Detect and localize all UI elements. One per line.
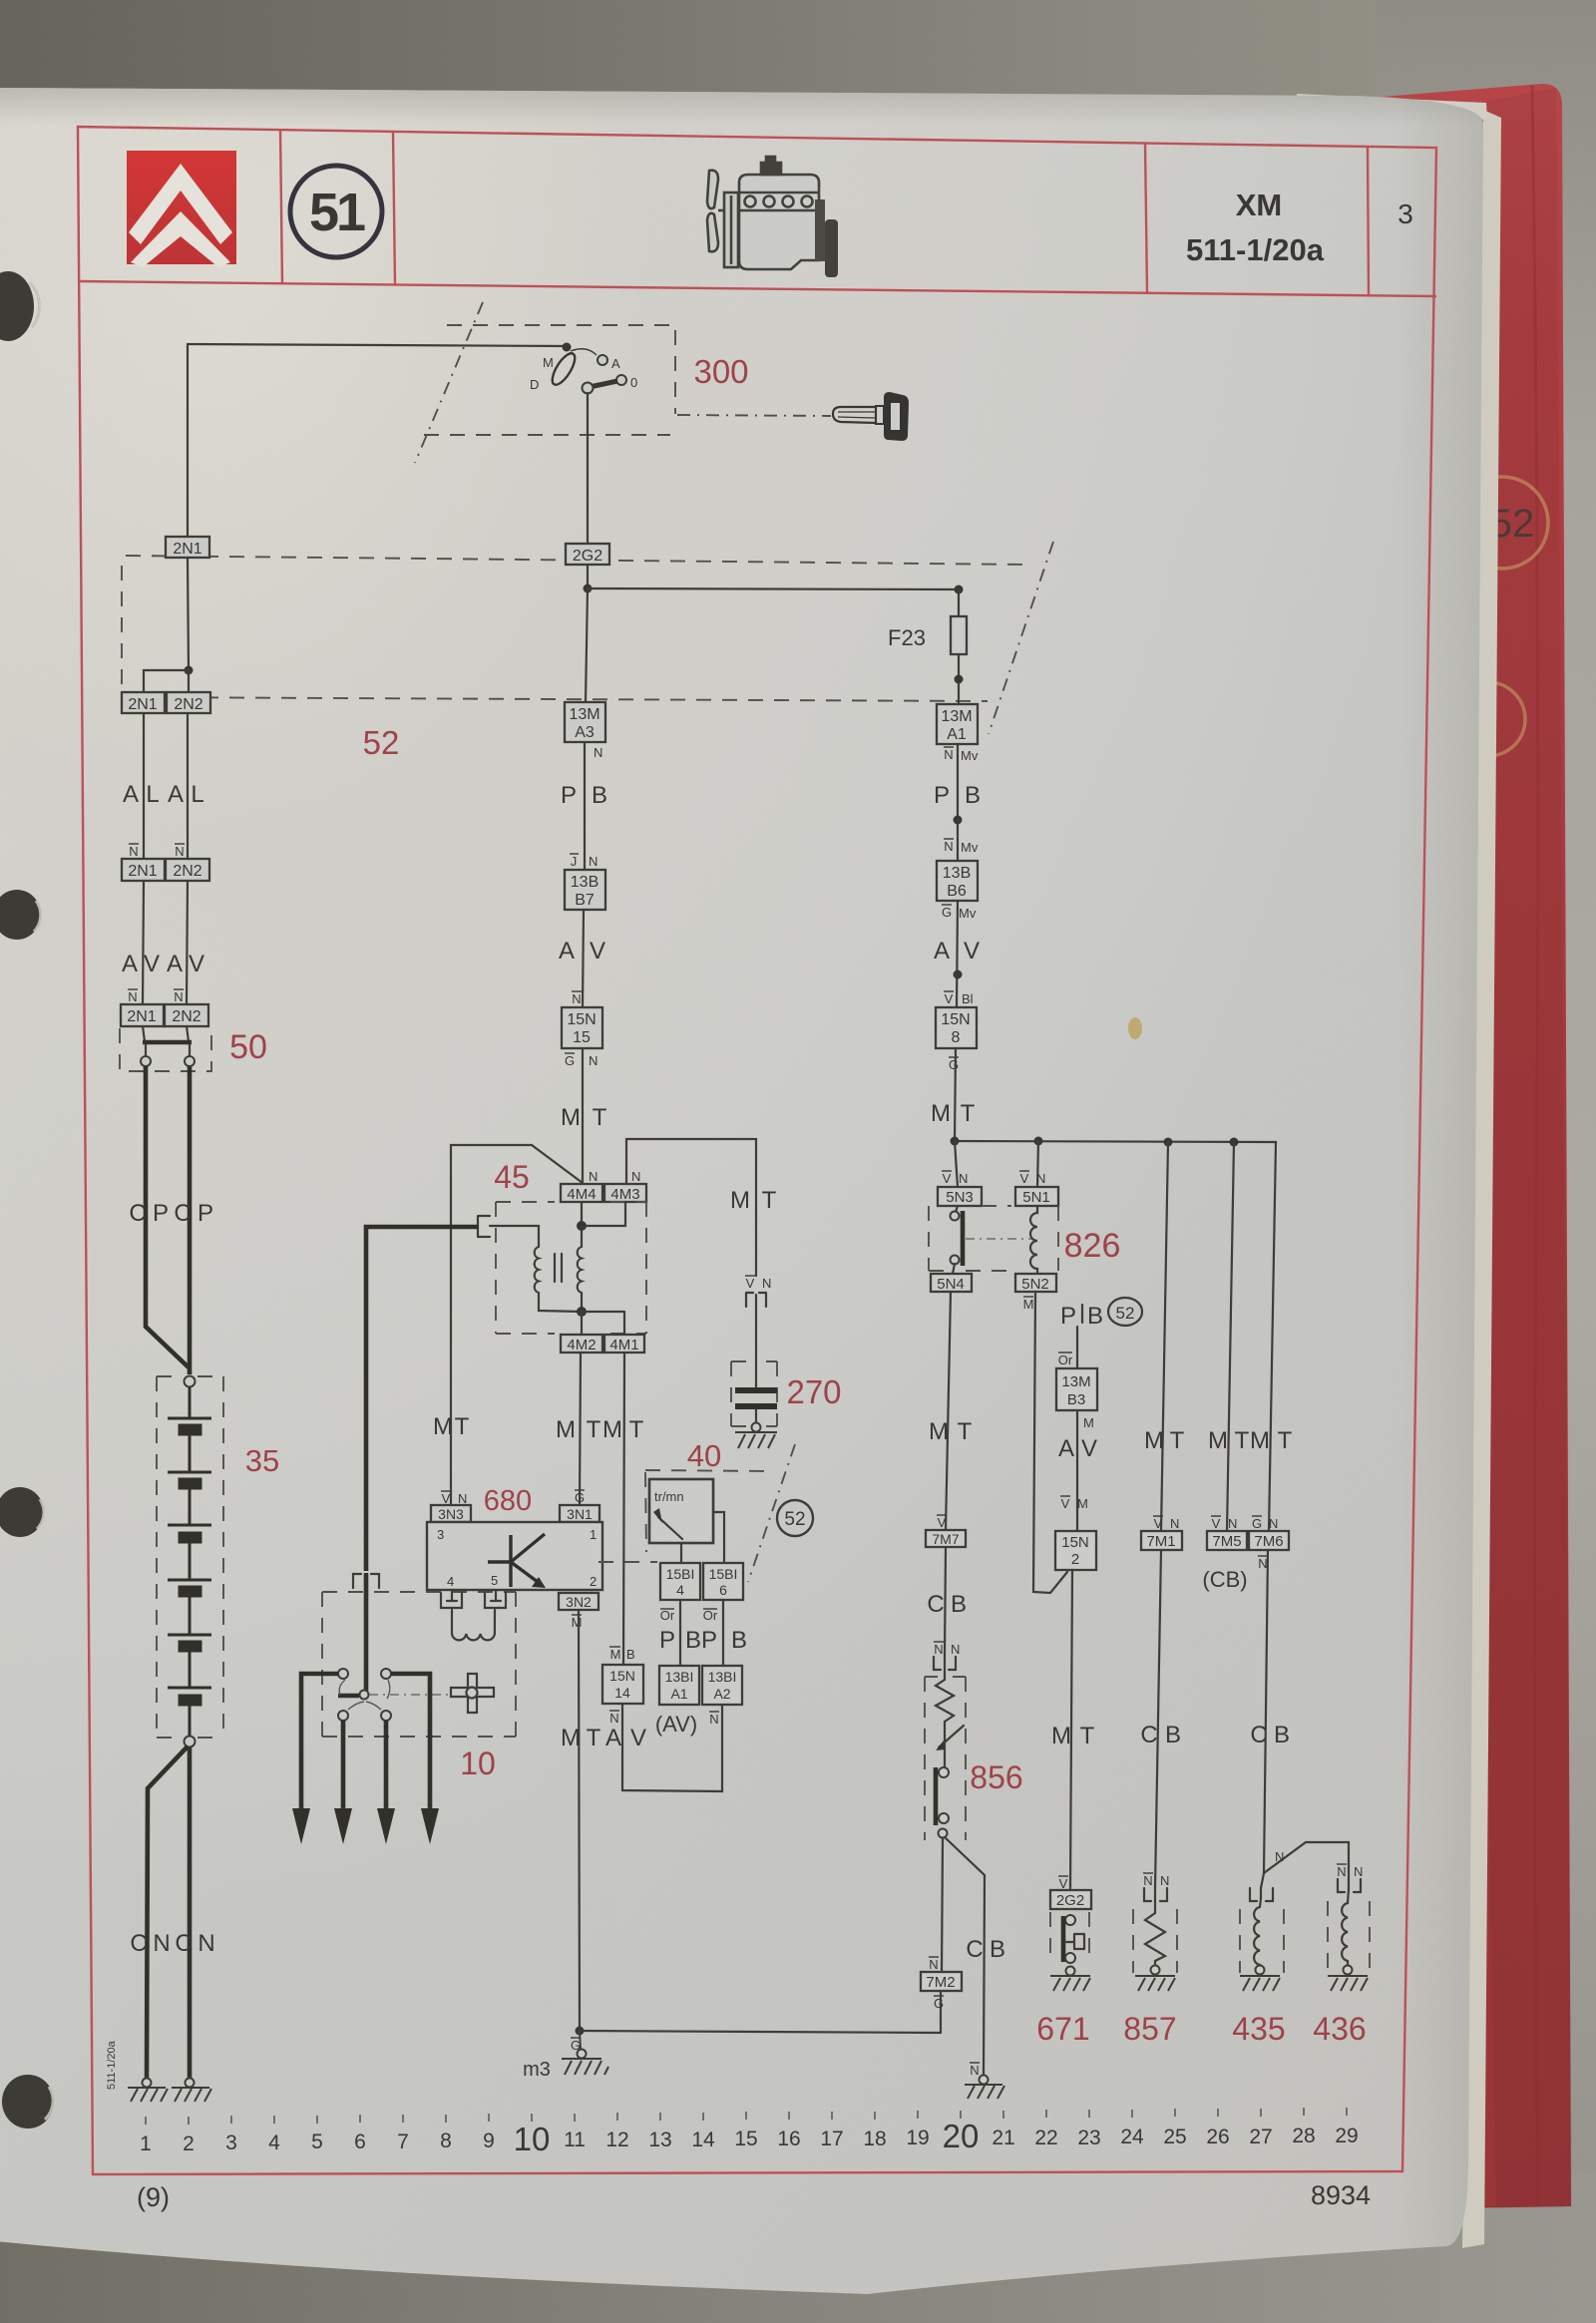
tachometer tr/mn — [649, 1479, 713, 1543]
oil pressure switch 671 — [1065, 1915, 1075, 1925]
ground battery left — [128, 2079, 168, 2103]
wire to ground — [1154, 1961, 1156, 1966]
relay coil winding — [1030, 1206, 1037, 1274]
wire node to 4M1 — [582, 1312, 624, 1335]
thermal contact 856 — [939, 1767, 949, 1777]
spark plug lead 2 — [341, 1721, 346, 1810]
connector 15BI 4 — [660, 1563, 700, 1600]
connector 2N1 row4 — [121, 1004, 164, 1026]
contact O — [616, 375, 626, 385]
wire tach to 15BI6 — [713, 1512, 724, 1563]
connector 3N3 — [431, 1505, 471, 1522]
connector 13B B6 — [937, 861, 978, 901]
resistor 856 dashed box — [925, 1677, 966, 1840]
wire pair A V right — [187, 881, 188, 1004]
ground condenser — [735, 1423, 777, 1449]
wire into resistor — [1154, 1898, 1156, 1913]
wire 15N15 down to coil — [582, 1048, 584, 1184]
connector 15N 14 — [602, 1665, 643, 1704]
node F23 top — [955, 585, 964, 594]
dashed box 857 — [1133, 1909, 1177, 1973]
battery ground leads — [147, 1746, 188, 2078]
wire plate to ground — [755, 1409, 757, 1423]
node feed split — [584, 584, 593, 593]
connector 7M2 — [921, 1972, 962, 1991]
connector 3N1 — [560, 1505, 599, 1522]
connector 13M A1 — [937, 704, 978, 744]
connector 2N1 row1 — [166, 537, 209, 558]
connector bracket 435 — [1250, 1888, 1273, 1901]
connector bracket 857 — [1144, 1888, 1167, 1901]
connector 15N B — [936, 1007, 977, 1048]
node M contact — [563, 343, 572, 352]
wire 15N B to bus — [955, 1048, 956, 1141]
junction 50 terminals — [146, 1044, 190, 1056]
connector 4M3 — [604, 1184, 646, 1202]
module 680 body — [427, 1522, 602, 1590]
bus nodes — [951, 1137, 960, 1146]
junction 50 stubs — [143, 1026, 189, 1041]
distributor cap connector — [353, 1574, 379, 1588]
wires 15BI to 13BI — [680, 1600, 723, 1666]
relay 826 dashed box — [929, 1206, 1058, 1271]
engine icon — [707, 157, 838, 277]
condenser plates — [735, 1387, 777, 1393]
wire 4M3 to node — [582, 1202, 625, 1226]
connector 15N 15 — [562, 1007, 602, 1048]
wire 5N4 down to 7M7 — [946, 1292, 951, 1530]
relay switch contacts — [956, 1206, 958, 1212]
connector 13BI A1 — [659, 1666, 699, 1705]
wire fuse down — [958, 654, 960, 704]
node below fuse — [955, 675, 964, 684]
zone 10 dashed box — [322, 1592, 516, 1737]
connector 3N2 — [559, 1593, 598, 1610]
wire to condenser — [755, 1295, 757, 1388]
connector 5N4 — [931, 1274, 972, 1292]
spark plug lead 4 — [391, 1674, 430, 1810]
node coil top — [577, 1221, 587, 1231]
battery main leads — [146, 1066, 189, 1367]
connector bracket 856 — [934, 1656, 956, 1670]
circled 52 reference — [1108, 1298, 1142, 1326]
connector 15N 2 — [1055, 1531, 1096, 1570]
inductor element 435 — [1254, 1898, 1261, 1966]
header cell divider XM/3 — [1368, 147, 1369, 295]
ignition switch 300 — [188, 343, 637, 545]
connector 13BI A2 — [702, 1666, 742, 1705]
wire 15N2 down to 671 — [1070, 1570, 1072, 1890]
connector 4M4 — [561, 1184, 602, 1202]
wire primary bottom — [539, 1293, 582, 1312]
wire 7M6 down to 435 — [1261, 1550, 1268, 1888]
connector 2N1 row3 — [122, 859, 165, 881]
zone 52 left dashed edge — [121, 566, 123, 695]
connector 13M B3 — [1056, 1368, 1097, 1410]
filler cap — [761, 163, 781, 175]
fan blades — [707, 171, 718, 208]
dashed box 435 — [1240, 1909, 1284, 1973]
pin 5 socket — [485, 1590, 506, 1608]
wire 7M2 to earth line — [940, 1991, 942, 2033]
oil pan — [739, 251, 819, 269]
resistor element 856 — [936, 1680, 954, 1722]
ground m3 — [562, 2031, 608, 2075]
wire down from 2N1 — [188, 558, 189, 670]
rotor link dash-dot — [369, 1694, 449, 1696]
wire pair A L right — [187, 713, 189, 859]
junction 50 dashed outline — [120, 1028, 211, 1071]
moving contact barrel — [549, 350, 580, 388]
node main earth junction — [576, 2027, 585, 2036]
spark plug lead 3 — [384, 1721, 389, 1810]
node mid2 — [954, 970, 963, 979]
wire bus to 5N3 — [955, 1141, 958, 1187]
fuse F23 — [951, 616, 967, 654]
distributor contacts — [338, 1669, 348, 1679]
wire 7M1 down to 857 — [1155, 1550, 1161, 1888]
connector 15BI 6 — [703, 1563, 743, 1600]
wire 13M B3 to 15N2 — [1076, 1410, 1078, 1531]
condenser 270 dashed box — [731, 1361, 777, 1426]
connector 13B B7 — [565, 870, 605, 910]
wire tap to module 680 — [451, 1145, 583, 1505]
connector 2N1 row2 — [122, 692, 165, 713]
condenser connector — [746, 1293, 766, 1307]
wire tach to 15BI4 — [680, 1543, 682, 1563]
rotor cross cam — [451, 1674, 494, 1713]
wire pair A L — [143, 713, 145, 859]
zone 300 diagonal dash-dot edge — [415, 302, 483, 463]
resistor element 857 — [1145, 1913, 1165, 1961]
wire socket to primary winding — [490, 1226, 539, 1247]
wire 13M A3 to 13B B7 — [584, 742, 586, 870]
pivot — [583, 383, 594, 394]
header bottom rule — [80, 281, 1436, 296]
red page frame — [78, 127, 1436, 2174]
connector 7M1 — [1141, 1531, 1182, 1550]
ground 857 — [1135, 1966, 1175, 1992]
ground 435 — [1240, 1966, 1280, 1992]
contact A — [598, 355, 607, 365]
belt pulley — [724, 193, 738, 267]
wire into fuse — [958, 589, 960, 616]
relay link dash-dot — [966, 1238, 1031, 1240]
connector 7M5 — [1207, 1531, 1247, 1550]
node split — [185, 666, 194, 675]
coil 45 primary socket — [478, 1216, 490, 1237]
ground battery right — [172, 2079, 211, 2103]
coil 45 core — [555, 1254, 562, 1282]
wire top left vertical — [187, 344, 189, 537]
connector 2G2 — [566, 544, 609, 565]
header cell divider logo/51 — [280, 130, 282, 283]
zone 52 lower dashed boundary — [126, 697, 988, 701]
pickup winding loop — [452, 1610, 495, 1640]
wire battery feed to switch — [188, 344, 567, 346]
rotor arm — [338, 1694, 359, 1699]
Citroen logo — [127, 151, 236, 267]
wire to 2N2 — [188, 670, 190, 692]
connector bracket 436 — [1338, 1879, 1361, 1892]
zone 52 diagonal boundary at F23 — [989, 542, 1053, 734]
wire into resistor — [944, 1667, 946, 1680]
MT distribution bus — [953, 1141, 1276, 1531]
junction terminal — [939, 1829, 948, 1838]
page fore-edge stack — [1462, 110, 1501, 2248]
wire 13B B7 to 15N 15 — [583, 910, 584, 1007]
switch lever — [590, 381, 617, 387]
connector 13M A3 — [565, 702, 605, 742]
circled 52 reference — [777, 1500, 813, 1536]
yellow stain — [1128, 1017, 1142, 1039]
wire bus to 5N1 — [1037, 1141, 1038, 1187]
battery bottom terminal — [185, 1737, 196, 1747]
coil 45 primary winding — [535, 1247, 539, 1293]
variable arrow — [939, 1726, 964, 1747]
wire bus to 7M5 — [1227, 1142, 1234, 1531]
ground 436 — [1328, 1966, 1368, 1992]
battery 35 cells — [168, 1387, 211, 1736]
wire 13B B6 to 15N B — [957, 901, 958, 1007]
zone 40 diagonal boundary — [748, 1444, 795, 1582]
K symbol — [488, 1534, 545, 1587]
wire branch left — [144, 670, 189, 692]
node coil bottom — [577, 1307, 587, 1317]
wire P B to 13M B3 — [1076, 1327, 1078, 1368]
binder ring holes — [0, 271, 54, 2129]
circled 51 section number — [290, 166, 382, 257]
zone 52 upper dashed boundary — [126, 556, 1027, 565]
dash-dot link to key — [677, 415, 831, 416]
wire pair A V — [143, 881, 144, 1004]
header cell divider 51/engine — [393, 132, 395, 284]
connector 2N2 row2 — [167, 692, 210, 713]
connector 4M2 — [561, 1335, 602, 1353]
pin 4 socket — [441, 1590, 462, 1608]
connector 2N2 row3 — [166, 859, 209, 881]
wire branch to body ground — [945, 1837, 985, 2075]
inductor element 436 — [1342, 1889, 1349, 1966]
key icon — [833, 392, 909, 441]
wire down to 13M A3 — [586, 588, 588, 702]
battery 35 top terminal — [185, 1376, 196, 1387]
wire pivot down to 2G2 — [587, 393, 589, 544]
connector 4M1 — [604, 1335, 644, 1353]
connector 2G2 oil switch — [1050, 1890, 1091, 1909]
HT thick wire — [366, 1227, 479, 1571]
wire bus to 7M1 — [1161, 1142, 1168, 1531]
binder 52 badge — [1451, 477, 1548, 756]
wire 2G2 down — [587, 565, 589, 587]
wire 4M1 down to 15N14 — [623, 1353, 624, 1665]
junction 50 bus bar — [143, 1040, 192, 1045]
arrowheads to spark plugs — [292, 1808, 310, 1844]
battery 35 dashed box — [157, 1376, 223, 1738]
wire 13M A1 to 13B B6 — [957, 744, 959, 861]
wire 7M7 down — [945, 1547, 946, 1656]
switch 671 dashed sides — [1050, 1912, 1089, 1961]
contact arcs — [339, 1680, 390, 1710]
red binder cover — [1272, 84, 1571, 2208]
coil 45 dashed box — [496, 1202, 646, 1334]
connector 2N2 row4 — [165, 1004, 208, 1026]
wire loop 4M3 to condenser — [626, 1139, 756, 1276]
zone 40 dashed — [645, 1470, 770, 1471]
wire branch to F23 column — [588, 588, 959, 589]
HT wire into cap — [364, 1573, 369, 1691]
flywheel — [815, 199, 825, 261]
wire 3N2 down to ground m3 — [579, 1610, 580, 2030]
connector 5N2 — [1015, 1274, 1056, 1292]
wire 4M4 to winding — [581, 1202, 583, 1226]
coil 45 secondary winding — [578, 1231, 582, 1312]
block — [739, 175, 819, 251]
wire branch to 436 — [1264, 1842, 1349, 1879]
wire to 7M2 — [942, 1838, 943, 1972]
wire 15N14 loop to 13BI A2 — [622, 1704, 722, 1791]
dashed box 436 — [1328, 1901, 1370, 1971]
connector 5N3 — [938, 1187, 982, 1206]
wire 5N2 down joins 15N2 out — [1033, 1292, 1067, 1593]
node mid — [954, 816, 963, 825]
wire 4M2 down to 3N1 — [580, 1353, 581, 1505]
wire junction to 7M2 column — [580, 2031, 941, 2033]
header cell divider engine/XM — [1145, 143, 1147, 292]
connector 7M6 — [1249, 1531, 1289, 1550]
rotor pivot — [360, 1691, 369, 1700]
ground 671 — [1050, 1967, 1090, 1992]
connector 5N1 — [1015, 1187, 1058, 1206]
spark plug lead 1 — [301, 1674, 338, 1810]
zone 300 dashed outline — [447, 325, 675, 414]
ground body — [965, 2076, 1004, 2100]
connector 7M7 — [926, 1530, 966, 1547]
wire resistor to contact — [944, 1722, 946, 1767]
